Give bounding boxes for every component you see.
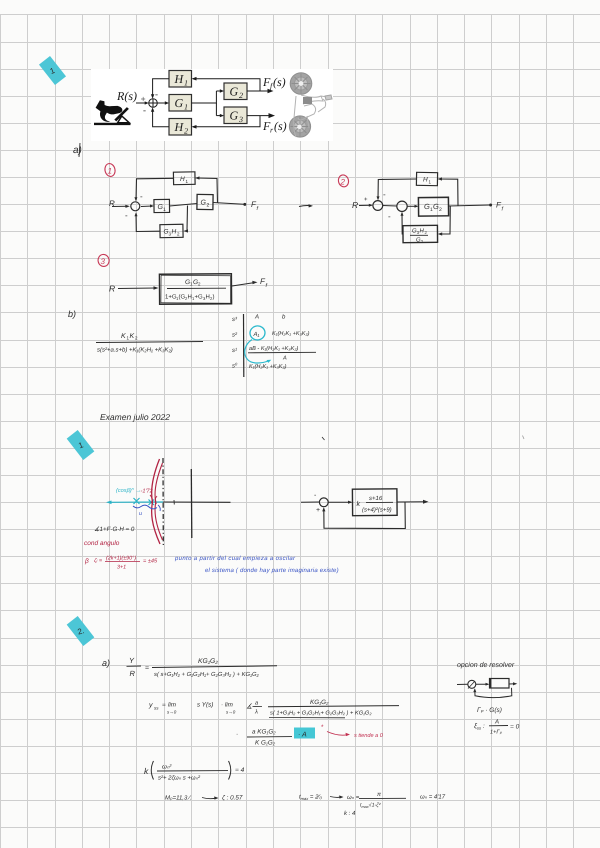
mini wire to block (476, 683, 489, 686)
svg-text:2: 2 (340, 178, 346, 187)
svg-text:a KG₁G₂: a KG₁G₂ (252, 729, 276, 736)
svg-text:A: A (254, 314, 259, 321)
svg-text:s+16: s+16 (369, 495, 383, 502)
denominator part b (97, 347, 173, 354)
svg-text:1: 1 (108, 167, 112, 176)
svg-text:K₁(H₂K₁ +K₃K₂): K₁(H₂K₁ +K₃K₂) (272, 330, 310, 337)
wire G3 to Fr output (247, 113, 275, 118)
wire G1 to G2 (170, 204, 198, 207)
svg-text:∡: ∡ (246, 703, 252, 711)
mini feedback wire (473, 688, 512, 698)
svg-text:s Y(s): s Y(s) (197, 702, 213, 709)
mini summing junction (468, 680, 476, 688)
svg-text:· lim: · lim (221, 702, 233, 709)
svg-text:2: 2 (207, 203, 210, 209)
plus sign at summing input (140, 94, 146, 104)
wire takeoff to H1 (192, 77, 261, 91)
svg-text:s(s²+a.s+b) +K₁(K₂H₁ +K₃K₂): s(s²+a.s+b) +K₁(K₂H₁ +K₃K₂) (97, 347, 173, 354)
svg-text:(2k+1)(±90°): (2k+1)(±90°) (106, 556, 136, 562)
label R(s) (116, 89, 137, 103)
yss big fraction bar (268, 706, 399, 707)
wire summing A to summing B (383, 205, 397, 208)
transition arrow between diagrams (299, 204, 313, 207)
asymptote dash-dot line (162, 458, 164, 545)
svg-text:KG₁G₂: KG₁G₂ (198, 658, 218, 665)
transfer fraction denominator (154, 671, 260, 678)
block G2 diagram 1 (197, 194, 213, 209)
wire summing to block exam (328, 501, 352, 504)
svg-text:-: - (125, 211, 128, 220)
svg-text:= 4: = 4 (235, 767, 245, 774)
wire R to summing A diagram 2 (359, 204, 373, 207)
blue omega label (139, 511, 142, 517)
svg-text:-1'72: -1'72 (141, 489, 154, 495)
svg-text:β: β (84, 558, 89, 565)
svg-text:=: = (145, 665, 149, 672)
block G1G2 diagram 2 (418, 197, 448, 216)
tmax line (299, 792, 406, 809)
cyan spiral arrow from A1 (245, 340, 272, 364)
red asterisk (321, 724, 324, 731)
red circled number 2 (337, 174, 350, 188)
heading opcion de resolver (457, 661, 515, 669)
block G3H2 over G2 diagram 2 (403, 225, 438, 244)
svg-text:(cosβ)n →: (cosβ)n → (116, 487, 141, 494)
svg-text:Mₚ=11,3 ⁄.: Mₚ=11,3 ⁄. (165, 795, 192, 802)
svg-text:A₁: A₁ (253, 331, 260, 338)
red arrow to note (327, 732, 350, 737)
svg-text:3: 3 (101, 257, 106, 266)
label Ff diagram 1 (251, 200, 259, 212)
exam diagram input wire (301, 501, 319, 503)
label b) (68, 309, 76, 319)
svg-text:(s): (s) (274, 119, 287, 133)
svg-text:s²+ 2ζωₙ s +ωₙ²: s²+ 2ζωₙ s +ωₙ² (158, 775, 201, 782)
red circled number 3 (97, 254, 110, 268)
gamma p equation (477, 707, 502, 714)
svg-text:=: = (162, 702, 166, 709)
svg-text:H: H (423, 177, 428, 184)
minus sign bottom summing 1 (125, 211, 128, 220)
wire G3H2G2 to summing B diagram 2 (401, 212, 404, 234)
wire H1 to summing top (151, 79, 169, 99)
minus sign bottom summing B (388, 212, 391, 221)
red locus branch left (152, 459, 160, 544)
cyan highlight box A (294, 728, 315, 739)
foot pedal icon (94, 100, 131, 125)
svg-text:el sistema ( donde hay par: el sistema ( donde hay parte imaginaria … (205, 567, 339, 574)
omega n value (420, 794, 446, 801)
wire G3H2 to summing 1 (135, 212, 161, 231)
wire H1 to summing 1 (134, 178, 173, 201)
svg-text:s→0: s→0 (226, 710, 236, 715)
svg-text:s( s+G₁H₂ + G₁G₂H₁+ G₂G₃H₂ ) +: s( s+G₁H₂ + G₁G₂H₁+ G₂G₃H₂ ) + KG₁G₂ (154, 671, 260, 678)
block G3H2 diagram 1 (160, 224, 183, 237)
wire H2 to summing bottom (151, 107, 169, 126)
cyan highlight marker 2 (67, 616, 95, 646)
block H1 diagram 1 (173, 172, 195, 185)
svg-text:1: 1 (184, 103, 188, 112)
svg-text:a): a) (102, 658, 110, 668)
wire takeoff to H1 diagram 1 (195, 176, 218, 203)
blue squiggle under axis (133, 505, 157, 509)
mini block (490, 679, 510, 689)
Routh table divider line (243, 314, 245, 377)
svg-text:= ±45: = ±45 (143, 559, 158, 565)
label Ff diagram 3 (260, 277, 268, 289)
cyan pole mark x1 (134, 498, 140, 504)
heading Examen julio 2022 (100, 412, 170, 422)
wire G1G2 to Ff diagram 2 (449, 204, 493, 207)
cyan circle on A1 (249, 325, 266, 341)
wire R(s) to summing (136, 101, 149, 104)
cyan highlight marker 1 (67, 430, 95, 460)
wire G2 to Ff output (247, 89, 274, 94)
svg-text:ss: ss (154, 706, 159, 711)
angle condition equation (94, 526, 135, 533)
exam summing junction (319, 498, 328, 507)
cyan highlight marker exercise 1 (39, 56, 66, 85)
wire block to Ff diagram 3 (232, 281, 258, 286)
root locus real axis cyan (106, 501, 163, 505)
svg-text:ζᵢ =: ζᵢ = (94, 557, 103, 564)
svg-text:a): a) (73, 145, 82, 156)
svg-text:b): b) (68, 309, 76, 319)
Routh row s0 (232, 362, 287, 371)
svg-text:punto a partir del cual em: punto a partir del cual empieza a oscila… (174, 555, 296, 562)
node R input diagram 3 (109, 284, 115, 294)
small check mark (322, 437, 325, 440)
svg-text:G: G (175, 96, 184, 110)
svg-text:Γₚ · G(s): Γₚ · G(s) (477, 707, 502, 714)
svg-text:R: R (109, 284, 115, 294)
svg-text:= 0: = 0 (510, 724, 520, 731)
svg-text:2: 2 (184, 127, 188, 136)
svg-text:-: - (388, 212, 391, 221)
imaginary axis (190, 469, 193, 538)
blue note line 1 (174, 555, 296, 562)
closed-loop transfer block diagram 3 (159, 274, 231, 305)
svg-text:-: - (383, 190, 386, 199)
yss big fraction numerator (310, 699, 329, 706)
svg-text:ωₙ²: ωₙ² (162, 764, 172, 771)
svg-text:lim: lim (168, 702, 176, 709)
motorcycle illustration (faded) (289, 73, 332, 137)
svg-text:1+Γₚ: 1+Γₚ (490, 730, 503, 736)
wire G2 to Ff output diagram 1 (213, 203, 246, 206)
wire summing B to G1G2 (407, 205, 418, 208)
Routh row s3 (232, 314, 286, 324)
red breakaway arrows (150, 495, 157, 504)
cyan pole mark x2 (149, 500, 155, 506)
yss big fraction denominator (269, 710, 372, 718)
svg-text:Examen julio 2022: Examen julio 2022 (100, 412, 170, 422)
block G1 diagram 1 (154, 199, 170, 213)
label Fr(s) (262, 119, 287, 135)
blue small arrow (158, 505, 160, 511)
svg-text:+: + (364, 197, 368, 203)
svg-text:G: G (230, 85, 239, 99)
wire summing to G1 (157, 101, 169, 104)
xi ss equation (474, 719, 520, 736)
svg-text:H: H (174, 120, 185, 134)
block H2 (169, 119, 192, 136)
node R input diagram 1 (109, 199, 115, 208)
red annotation -1'72 (141, 489, 154, 495)
svg-text:): ) (213, 294, 215, 301)
summing junction (printed) (149, 99, 158, 108)
wire summing to G1 (141, 205, 154, 208)
cyan annotation cos beta (116, 487, 141, 494)
svg-text:·: · (236, 731, 238, 738)
minus sign top summing A (383, 190, 386, 199)
Y over R fraction (127, 656, 150, 678)
svg-text:λ: λ (254, 709, 258, 716)
svg-text:s¹: s¹ (232, 347, 237, 354)
svg-text:y: y (148, 702, 153, 709)
svg-text:ωₙ =: ωₙ = (347, 795, 360, 801)
svg-text:1: 1 (163, 207, 166, 213)
svg-text:(s): (s) (273, 75, 286, 89)
svg-text:R: R (130, 669, 136, 678)
red note s tiende a 0 (354, 732, 384, 739)
exam transfer block (352, 489, 397, 516)
svg-text:H: H (174, 72, 185, 86)
label Ff(s) (262, 75, 286, 91)
second line small fraction (236, 729, 292, 747)
exam feedback minus (316, 507, 320, 514)
svg-text:3+1: 3+1 (117, 565, 126, 571)
exam feedback wire (322, 502, 405, 529)
summing junction A diagram 2 (373, 201, 383, 211)
fraction bar part b (96, 342, 203, 343)
label Ff diagram 2 (496, 201, 504, 213)
Mp line (165, 795, 243, 802)
svg-text:∡1+F·G·H = 0: ∡1+F·G·H = 0 (94, 526, 135, 533)
exam minus mark top (314, 492, 317, 499)
svg-text:· A: · A (298, 732, 307, 739)
svg-text:s→0: s→0 (167, 710, 177, 715)
yss equation head (148, 701, 262, 716)
block H1 (169, 71, 192, 88)
summing junction diagram 1 (131, 202, 140, 211)
svg-text:R: R (352, 200, 358, 210)
red asymptote angle formula (84, 556, 158, 571)
block G1 (169, 95, 192, 112)
wire G1 to branch node (192, 91, 217, 116)
handwritten label a) (73, 143, 82, 157)
wire R to block diagram 3 (118, 286, 159, 290)
transfer fraction bar (152, 666, 277, 668)
red cond angulo (84, 540, 120, 547)
axis tick (173, 500, 175, 505)
svg-text:-: - (155, 89, 158, 99)
plus sign input summing A (364, 197, 368, 203)
root locus real axis black (163, 501, 231, 503)
mini output wire (509, 682, 517, 685)
Routh row s1 (232, 345, 316, 362)
wire takeoff to H1 diagram 2 (438, 177, 459, 205)
transfer fraction numerator KG1G2 (198, 658, 218, 665)
svg-text:-: - (140, 192, 143, 201)
block G3 (224, 107, 247, 124)
svg-text:K: K (121, 333, 126, 340)
svg-text:aB - K₁(H₂K₁ +K₃K₂): aB - K₁(H₂K₁ +K₃K₂) (249, 345, 298, 352)
summing junction B diagram 2 (397, 201, 407, 211)
wire H1 to summing A diagram 2 (377, 179, 417, 200)
k equals 4 (344, 810, 356, 817)
wire branch to G3 (216, 114, 224, 117)
K gain equation (144, 761, 245, 782)
svg-text:KG₁G₂: KG₁G₂ (310, 699, 329, 706)
svg-text:K₁(H₂K₁ +K₃K₂): K₁(H₂K₁ +K₃K₂) (249, 363, 287, 370)
block H1 diagram 2 (416, 172, 437, 185)
svg-text:-: - (143, 105, 146, 115)
block G2 (224, 83, 247, 100)
svg-text:(s+4)²(s+9): (s+4)²(s+9) (362, 507, 392, 514)
minus sign bottom of summing (143, 105, 146, 115)
svg-text:G: G (230, 109, 239, 123)
red circled number 1 (104, 163, 116, 178)
node R input diagram 2 (352, 200, 358, 210)
label a) part 2 (102, 658, 110, 668)
svg-text:+: + (316, 507, 320, 514)
mini diagram input wire (457, 683, 468, 685)
wire takeoff to H2 (192, 116, 261, 129)
wire takeoff to G3H2G2 diagram 2 (438, 206, 451, 236)
svg-text:K: K (130, 333, 135, 340)
svg-text:2: 2 (439, 207, 442, 213)
svg-text:2: 2 (239, 91, 243, 100)
wire branch to G2 (216, 89, 224, 92)
closed loop fraction part b numerator K1K2 (121, 333, 138, 341)
svg-text:u: u (139, 511, 142, 517)
svg-text:s( 1+G₁H₂ + G₁G₂H₁+ G₂G₃H₂ ) +: s( 1+G₁H₂ + G₁G₂H₁+ G₂G₃H₂ ) + KG₁G₂ (270, 710, 372, 717)
svg-text:s tiende a 0: s tiende a 0 (354, 732, 384, 739)
svg-text:ωₙ = 4'17: ωₙ = 4'17 (420, 794, 446, 801)
minus sign top of summing (155, 89, 158, 99)
svg-text:opcion de resolver: opcion de resolver (457, 661, 515, 669)
printed figure background panel (91, 69, 333, 141)
svg-text:1: 1 (184, 79, 188, 88)
svg-text:A: A (494, 719, 499, 726)
svg-text:+G: +G (195, 294, 204, 301)
svg-text:k: k (357, 500, 361, 508)
red locus branch right (155, 463, 162, 540)
Routh row s2 (232, 330, 310, 339)
faint tick mark right (523, 436, 525, 440)
svg-text:H: H (180, 176, 185, 183)
blue note line 2 (205, 567, 339, 574)
wire takeoff to G3H2 diagram 1 (184, 206, 189, 233)
svg-text:ζ : 0.57: ζ : 0.57 (222, 795, 243, 802)
wire R to summing junction 1 (112, 205, 130, 208)
svg-text:3: 3 (238, 115, 243, 124)
minus sign top summing 1 (140, 192, 143, 201)
svg-text:R(s): R(s) (116, 89, 137, 103)
svg-text:H: H (172, 229, 177, 236)
svg-text:K G₁G₂: K G₁G₂ (255, 740, 276, 747)
svg-text:A: A (282, 356, 287, 362)
svg-text:k : 4: k : 4 (344, 810, 356, 817)
svg-text:cond angulo: cond angulo (84, 540, 120, 547)
exam output wire (397, 500, 429, 504)
